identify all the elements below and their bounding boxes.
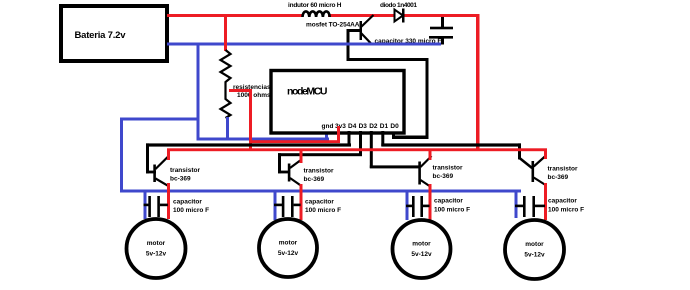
svg-text:bc-369: bc-369 [433, 173, 454, 180]
capacitor C0 330 micro F [429, 17, 453, 45]
svg-text:motor: motor [147, 240, 166, 247]
wire red battery top rail [167, 14, 303, 17]
wire red t2 collector drop [300, 150, 303, 163]
wire red bus y148 [167, 148, 547, 151]
wire red t3 emitter to motor3 [429, 184, 432, 222]
transistor Q3 bc-369 [418, 156, 431, 187]
wire black transistor2 base lead [278, 171, 290, 174]
capacitor C3 100 micro F [406, 192, 430, 220]
wire red rail inductor to diode [328, 14, 395, 17]
motor M3 [393, 220, 451, 278]
svg-text:D4: D4 [348, 123, 357, 130]
svg-text:Bateria 7.2v: Bateria 7.2v [75, 30, 127, 41]
wire red 3v3 pin stub [337, 126, 340, 143]
svg-text:motor: motor [412, 241, 431, 248]
wire red rail diode to right corner [403, 14, 479, 17]
wire blue horizontal y117 [120, 118, 199, 121]
svg-text:nodeMCU: nodeMCU [287, 86, 328, 98]
wire black under box to D0 [392, 136, 429, 140]
svg-text:100 micro F: 100 micro F [548, 207, 584, 214]
wire red t4 collector drop [544, 150, 547, 159]
mosfet Q0 TO-254AA [360, 15, 374, 44]
wire black drop to transistor1 base [146, 143, 149, 173]
svg-text:100 micro F: 100 micro F [305, 207, 341, 214]
transistor Q1 bc-369 [153, 156, 168, 186]
wire black diagonal to transistor4 base [520, 158, 533, 168]
wire red right-side vertical drop [476, 14, 480, 151]
motor M2 [259, 219, 317, 277]
wire black transistor1 base lead [146, 171, 156, 174]
nodeMCU U1 [271, 71, 404, 134]
wire black D0 pin stub [392, 131, 395, 139]
svg-text:3v3: 3v3 [335, 123, 346, 130]
svg-text:gnd: gnd [322, 123, 334, 130]
svg-text:capacitor: capacitor [548, 198, 577, 205]
transistor Q4 bc-369 [532, 156, 547, 186]
wire red t2 emitter to motor2 [300, 184, 303, 220]
wire black D3 horizontal [278, 153, 362, 156]
wire red t4 emitter to motor4 [544, 183, 547, 220]
wire black D3 pin stub [359, 131, 362, 156]
wire red t1 collector drop [167, 150, 170, 160]
svg-text:5v-12v: 5v-12v [278, 250, 299, 257]
svg-text:transistor: transistor [548, 166, 578, 173]
resistor R1 1000 ohms [221, 14, 231, 139]
transistor Q2 bc-369 [288, 160, 302, 187]
wire black gate vertical [347, 29, 350, 61]
wire black drop to transistor2 base [278, 153, 281, 173]
wire blue left vertical x120 [120, 118, 123, 193]
battery box Bateria 7.2v [61, 6, 167, 61]
motor M4 [505, 220, 564, 279]
svg-text:100 micro F: 100 micro F [173, 207, 209, 214]
wire black gate horizontal run [347, 58, 429, 61]
wire red resistor tap horizontal [229, 89, 251, 92]
wire red 3v3 horizontal to resistor tap [250, 140, 340, 143]
svg-text:capacitor: capacitor [173, 199, 202, 206]
inductor L1 60 micro H [303, 11, 330, 17]
wire blue under-box horizontal to gnd [197, 138, 329, 141]
wire black D2 pin stub [370, 131, 373, 168]
capacitor C2 100 micro F [274, 191, 301, 220]
svg-text:5v-12v: 5v-12v [146, 251, 167, 258]
wire red resistor tap vertical [249, 89, 252, 151]
capacitor C4 100 micro F [515, 192, 546, 218]
wire black D4 pin stub [348, 131, 351, 146]
svg-text:transistor: transistor [433, 165, 463, 172]
wire blue bottom bus [120, 190, 521, 193]
svg-text:mosfet TO-254AA: mosfet TO-254AA [306, 22, 360, 29]
wire black D2 horizontal to transistor3 base [370, 165, 419, 168]
wire black drop toward transistor4 [518, 143, 521, 159]
svg-text:bc-369: bc-369 [548, 174, 569, 181]
svg-text:D1: D1 [380, 123, 389, 130]
svg-text:bc-369: bc-369 [304, 176, 325, 183]
wire black right of nodeMCU vertical [426, 58, 429, 139]
wire black mosfet gate stub [347, 29, 361, 32]
wire black D1 pin stub [381, 131, 384, 146]
svg-text:transistor: transistor [304, 168, 334, 175]
diode D1 1n4001 [395, 9, 405, 23]
svg-text:D3: D3 [359, 123, 368, 130]
svg-text:motor: motor [525, 241, 544, 248]
svg-text:bc-369: bc-369 [170, 176, 191, 183]
svg-text:D0: D0 [390, 123, 399, 130]
wire blue vertical at x196 [197, 43, 200, 141]
capacitor C1 100 micro F [144, 191, 168, 219]
svg-text:indutor 60 micro H: indutor 60 micro H [288, 2, 342, 9]
svg-text:transistor: transistor [170, 167, 200, 174]
wire red t1 emitter to motor1 [167, 183, 170, 219]
motor M1 [127, 219, 186, 278]
wire blue gnd pin stub [325, 131, 328, 140]
svg-text:5v-12v: 5v-12v [411, 251, 432, 258]
svg-text:1000 ohms: 1000 ohms [237, 92, 271, 99]
wire blue battery rail [167, 43, 441, 46]
svg-text:D2: D2 [369, 123, 378, 130]
wire red t3 collector drop [429, 150, 432, 160]
svg-text:motor: motor [279, 240, 298, 247]
svg-text:capacitor: capacitor [434, 198, 463, 205]
wire black bus right (D1) [381, 143, 521, 146]
wire black bus left (D4) [146, 143, 351, 146]
svg-text:capacitor: capacitor [305, 199, 334, 206]
svg-text:100 micro F: 100 micro F [434, 207, 470, 214]
svg-text:5v-12v: 5v-12v [524, 252, 545, 259]
svg-text:diodo 1n4001: diodo 1n4001 [380, 2, 417, 9]
